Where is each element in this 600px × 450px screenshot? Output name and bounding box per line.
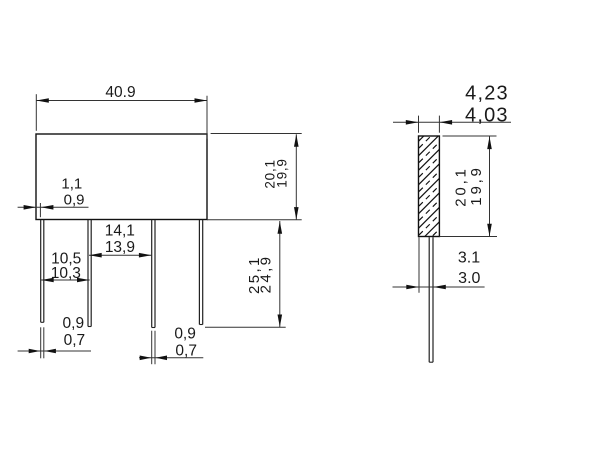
pin3 width dim line 0,9/0,7 (139, 357, 203, 359)
pin 2 (front view lead) (87, 220, 89, 327)
svg-text:13,9: 13,9 (105, 239, 135, 256)
dimension 40.9 line (36, 100, 207, 102)
svg-text:0,7: 0,7 (175, 342, 197, 359)
pin 3 (front view lead) (151, 220, 153, 328)
dim 4,23/4,03 extension lines (418, 116, 420, 133)
dim 20,1/19,9 line (front) (295, 134, 297, 219)
left edge extension down (3.1 dim) (418, 237, 420, 293)
dim 1,1/0,9 line (18, 206, 89, 208)
svg-text:3.0: 3.0 (458, 270, 480, 287)
side view pin lead (428, 237, 430, 362)
pin3 width dim extension lines (151, 331, 153, 365)
dimension 40.9 extension lines (35, 94, 37, 131)
svg-text:4,23: 4,23 (465, 83, 509, 105)
svg-text:14,1: 14,1 (105, 223, 135, 240)
pin1 width dim extension lines (40, 327, 42, 358)
dim 1,1/0,9 tick extension (39, 203, 41, 217)
pin1 width dim line 0,9/0,7 (18, 350, 91, 352)
svg-text:4,03: 4,03 (465, 104, 509, 126)
dim 20,1/19,9 extension lines (front) (211, 133, 302, 135)
svg-text:19,9: 19,9 (468, 165, 485, 205)
svg-text:3.1: 3.1 (458, 249, 480, 266)
svg-text:0,9: 0,9 (174, 326, 196, 343)
dim 4,23/4,03 line (393, 121, 511, 123)
svg-text:0,9: 0,9 (64, 191, 85, 208)
dim 14,1/13,9 line (89, 254, 152, 256)
dim 3.1/3.0 line (393, 286, 485, 288)
svg-text:0,9: 0,9 (63, 315, 85, 332)
dim 20,1/19,9 line (side) (489, 136, 491, 236)
pin 1 (front view lead) (40, 220, 42, 322)
body outline (front view) (36, 134, 207, 220)
dimension 40.9 arrows (36, 98, 49, 103)
pin 4 (front view lead) (198, 220, 200, 325)
dim 20,1/19,9 extension lines (side) (443, 135, 497, 137)
svg-text:24,9: 24,9 (258, 255, 275, 294)
dim 25,1/24,9 line (279, 221, 281, 327)
svg-text:19,9: 19,9 (275, 158, 290, 187)
svg-text:10,3: 10,3 (51, 265, 81, 282)
side view body outline (419, 136, 440, 237)
dim 25,1/24,9 bottom extension (205, 326, 286, 328)
svg-text:40.9: 40.9 (105, 84, 135, 101)
dim 10,5/10,3 line (41, 279, 90, 281)
svg-text:0,7: 0,7 (64, 332, 86, 349)
svg-text:1,1: 1,1 (61, 176, 82, 193)
